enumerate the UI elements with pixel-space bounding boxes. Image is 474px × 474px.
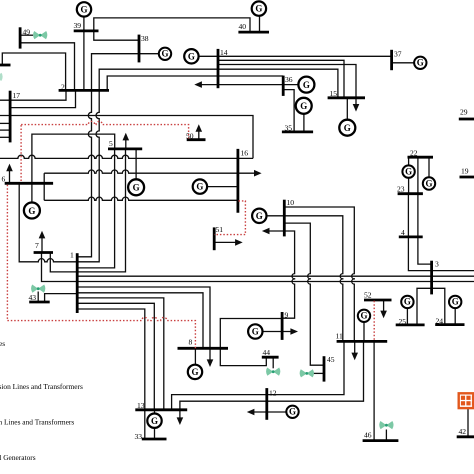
arrow load bus10 left <box>262 228 270 235</box>
bus 42 fragment <box>457 435 474 438</box>
svg-text:2: 2 <box>61 83 65 92</box>
bus 16 <box>236 149 239 213</box>
arrow load bus15 down <box>353 104 360 112</box>
generator G15 <box>339 120 355 136</box>
wire G37 <box>392 62 414 64</box>
bus 5 <box>108 147 142 150</box>
arrow load bus5 up <box>123 133 130 141</box>
svg-text:29: 29 <box>460 108 468 117</box>
svg-text:13: 13 <box>137 401 145 410</box>
generator G8 <box>188 365 202 379</box>
generator G37 <box>414 57 426 69</box>
wire bus39 to bus38 <box>94 31 139 40</box>
svg-text:8: 8 <box>189 338 193 347</box>
svg-text:25: 25 <box>399 317 407 326</box>
wind turbine W46 <box>379 421 393 429</box>
wire W43 mast <box>37 292 39 303</box>
bus 35 <box>282 130 313 133</box>
svg-text:49: 49 <box>23 28 31 37</box>
wire G10-bus10 to bus11 b <box>266 216 343 342</box>
bus 4 <box>399 235 423 238</box>
svg-text:l Generators: l Generators <box>0 453 36 462</box>
wire trunk2+bus6-bus1-bus14-bus15 <box>19 69 338 262</box>
wind turbine W49 <box>33 31 47 39</box>
wire bus25-bus3-bus24 rectangle <box>417 288 445 325</box>
wire G24 stem <box>454 308 456 325</box>
wire G5 stem <box>135 149 137 180</box>
svg-text:35: 35 <box>285 123 293 132</box>
wire G39 stem and bus39-bus2 <box>83 16 85 90</box>
red boundary vertical upper at x21 <box>20 125 22 182</box>
wire G16 <box>207 186 238 188</box>
generator G38 <box>159 48 171 60</box>
generator G12 <box>286 406 298 418</box>
bus 10 <box>283 200 286 237</box>
svg-text:50: 50 <box>186 132 194 141</box>
wire bus1 to bus33 <box>77 309 145 439</box>
generator G6 <box>24 203 40 219</box>
svg-text:22: 22 <box>410 149 418 158</box>
generator G16 <box>193 179 207 193</box>
wire W45 stem <box>314 372 325 374</box>
generator G14 <box>184 49 198 63</box>
svg-text:46: 46 <box>364 431 372 440</box>
wire W44 mast <box>272 357 274 368</box>
wire bus5 load arrow stem <box>125 139 127 149</box>
arrow bus6-line right past bus16 <box>254 170 262 177</box>
wire G22a stem lower <box>408 178 410 194</box>
svg-text:9: 9 <box>285 311 289 320</box>
red boundary bottom to bus8 <box>7 317 195 348</box>
bus 24 <box>435 323 464 326</box>
wire G22b stem <box>428 157 430 177</box>
svg-text:38: 38 <box>141 34 149 43</box>
bus 15 <box>328 96 365 99</box>
svg-text:19: 19 <box>461 166 469 175</box>
bus 17 <box>9 91 12 143</box>
wire G13 stem upper <box>154 410 156 414</box>
wire bus14 to bus15 a <box>218 60 344 98</box>
wire bus43 to bus1 <box>45 294 78 302</box>
wire bus7 load arrow stem <box>41 237 43 252</box>
svg-text:3: 3 <box>435 259 439 268</box>
arrow load bus52 down <box>380 311 387 319</box>
svg-text:es: es <box>0 339 5 348</box>
red boundary vertical left at x7 <box>6 185 8 321</box>
svg-text:51: 51 <box>216 225 224 234</box>
wire bus50 arrow stem <box>198 131 200 140</box>
wire bus36 to bus35 <box>283 90 294 132</box>
arrow load bus6 up <box>6 164 13 172</box>
wire bus1 to bus8 load arrow <box>77 287 210 360</box>
wire G22a stem upper <box>408 157 410 165</box>
generator G13 <box>147 414 161 428</box>
wire bus1 to bus8 <box>77 293 203 349</box>
bus 13 <box>135 408 187 411</box>
wire bus39 to bus40 <box>94 18 250 32</box>
svg-text:40: 40 <box>239 22 247 31</box>
svg-text:14: 14 <box>220 48 228 57</box>
generator G36 <box>298 77 314 93</box>
red link bus52 to bus11 <box>373 301 375 342</box>
wire bus11 load arrow stem <box>354 341 356 354</box>
wire G14-bus14-bus37 <box>199 55 392 57</box>
svg-text:n Lines and Transformers: n Lines and Transformers <box>0 417 74 426</box>
svg-text:36: 36 <box>285 75 293 84</box>
bus 7 <box>34 251 53 254</box>
bus 19 fragment <box>460 176 474 179</box>
svg-text:sion Lines and Transformers: sion Lines and Transformers <box>0 382 83 391</box>
wire through-line y276 <box>77 275 474 277</box>
wire bus49 to bus2 <box>20 43 74 91</box>
wire bus2 lower-left through bus17 <box>0 91 66 100</box>
arrow load bus14 left <box>194 81 202 88</box>
wire bus7 drop to through-line y281 to right edge <box>42 253 474 282</box>
bus 48 fragment <box>0 64 11 67</box>
bus 25 <box>396 323 425 326</box>
wire bus9 to bus44 <box>220 319 282 366</box>
wire G11 stem <box>363 322 365 342</box>
bus 23 <box>398 192 423 195</box>
svg-text:6: 6 <box>2 175 6 184</box>
wire bus17 stub b <box>0 129 10 131</box>
bus 9 <box>281 312 284 340</box>
svg-text:39: 39 <box>74 21 82 30</box>
wire bus17 stub c <box>0 136 10 138</box>
wire bus11 to bus46 <box>373 341 375 440</box>
svg-text:42: 42 <box>459 427 467 436</box>
wind turbine W45 transform <box>300 369 314 377</box>
svg-text:7: 7 <box>35 241 39 250</box>
wire bus5 drop to bus7 through bus1 <box>50 149 125 272</box>
svg-text:37: 37 <box>394 50 402 59</box>
bus 2 <box>59 89 109 92</box>
wire W46 mast <box>385 430 387 441</box>
wire arrow-bus14-bus36-G36 <box>201 84 299 86</box>
wire G35 stem <box>303 114 305 132</box>
wire bus6 loop lower to bus16 <box>44 197 238 200</box>
svg-text:15: 15 <box>330 89 338 98</box>
bus 11 <box>337 340 388 343</box>
bus 43 <box>29 301 50 304</box>
bus 1 <box>76 253 79 313</box>
bus 6 <box>5 182 53 185</box>
bus 12 <box>265 388 268 420</box>
arrow load bus8 down <box>207 359 214 367</box>
wind turbine W44 <box>266 368 280 376</box>
svg-text:52: 52 <box>364 291 372 300</box>
red boundary horizontal to bus50 <box>21 121 189 139</box>
generator G5 <box>128 179 144 195</box>
generator G9 <box>248 324 262 338</box>
bus 3 <box>430 261 433 295</box>
wire bus1 to bus13 a <box>77 298 164 410</box>
wire G25 stem <box>406 308 408 325</box>
wire bus22-23-4 to bus3 inner <box>418 157 432 264</box>
wind turbine W48 fragment at left edge <box>0 73 3 81</box>
arrow load bus12 left <box>247 409 255 416</box>
generator G39 <box>77 2 91 16</box>
svg-text:11: 11 <box>336 332 344 341</box>
wire G13 stem lower <box>154 428 156 439</box>
bus 49 <box>19 27 22 48</box>
wind turbine W43 <box>31 285 45 293</box>
bus 8 <box>178 347 229 350</box>
svg-text:24: 24 <box>436 316 444 325</box>
wire bus6 loop upper to right arrow past bus16 <box>44 170 255 173</box>
generator G11 <box>358 310 370 322</box>
svg-text:10: 10 <box>287 198 295 207</box>
svg-text:5: 5 <box>109 139 113 148</box>
bus 36 <box>282 76 285 96</box>
bus 22 <box>408 156 434 159</box>
bus 44 <box>262 356 279 359</box>
bus 39 <box>74 29 99 32</box>
wire bus11 to bus13 upper <box>172 341 344 409</box>
svg-text:16: 16 <box>241 148 249 157</box>
bus 37 <box>390 50 393 70</box>
svg-text:17: 17 <box>13 91 21 100</box>
wire W49 <box>20 34 33 36</box>
wire bus10 stub to bus11 a <box>284 207 354 341</box>
bus 46 <box>363 439 399 442</box>
arrow load bus50 up <box>196 124 203 132</box>
bus 52 <box>364 299 392 302</box>
svg-text:4: 4 <box>401 228 405 237</box>
wire bus6 loop vertical <box>43 173 45 200</box>
wire bus5 drop to bus1 <box>78 149 115 268</box>
wire bus14 to bus15 load arrow <box>218 65 356 106</box>
wire left fragment to bus2 <box>2 53 65 90</box>
bus 29 fragment <box>459 118 474 121</box>
bus 33 <box>142 438 167 441</box>
wire bus52 load arrow stem <box>383 301 385 312</box>
wire bus2 corner to bus36 <box>107 76 283 90</box>
wire PV42 stem <box>467 408 469 437</box>
bus 40 <box>238 31 269 34</box>
wire bus6 load arrow stem <box>9 170 11 183</box>
generator G25 <box>401 296 413 308</box>
wire bus10 to bus45 <box>284 223 324 365</box>
generator G35 <box>296 98 312 114</box>
wire G8 stem <box>194 348 196 364</box>
svg-text:33: 33 <box>135 432 143 441</box>
wire G12 line with left arrow <box>253 411 286 413</box>
wire bus1 to bus13 b <box>77 303 154 410</box>
svg-text:45: 45 <box>327 355 335 364</box>
bus 38 <box>138 35 141 63</box>
wire through-line y115 with corner to y158 <box>0 116 253 159</box>
wire bus10 arrow line to bus9 <box>267 231 295 318</box>
svg-text:44: 44 <box>263 348 271 357</box>
svg-text:12: 12 <box>269 388 277 397</box>
wire trunk1: bus38/G wire down to bus1 <box>78 54 159 257</box>
red link bus16 to bus51 <box>214 201 245 235</box>
bus 14 <box>217 49 220 88</box>
wire bus17 to bus2 lower <box>10 91 75 108</box>
arrow load bus51 right <box>235 239 243 246</box>
generator G10 <box>252 209 266 223</box>
svg-text:23: 23 <box>397 185 405 194</box>
generator G22a <box>402 165 414 177</box>
generator G24 <box>449 296 461 308</box>
arrow load bus13 down <box>177 417 184 425</box>
arrow load bus7 up <box>39 231 46 239</box>
arrow load bus11 down <box>351 353 358 361</box>
wire G15 stem <box>346 98 348 120</box>
wire bus23-4 to bus3 outer jog to right edge <box>408 194 474 271</box>
wire y158 line with hops <box>0 155 253 158</box>
bus 50 <box>187 138 206 141</box>
generator G40 <box>252 1 266 15</box>
bus 51 <box>213 227 216 250</box>
wire G40 stem <box>259 16 261 32</box>
svg-text:43: 43 <box>29 293 37 302</box>
bus 45 <box>323 356 326 381</box>
wire bus17 stub a <box>0 122 10 124</box>
wire G6 up to bus5 <box>32 134 115 203</box>
generator G22b <box>423 177 435 189</box>
wire G9 to bus9 <box>262 331 291 333</box>
PV panel bus42 <box>459 393 474 408</box>
wire bus11 to bus13 lower with load arrow <box>180 341 364 418</box>
arrow G9 line right on bus9 <box>290 328 298 335</box>
svg-text:1: 1 <box>70 251 74 260</box>
wire bus51 arrow stem <box>214 241 236 243</box>
